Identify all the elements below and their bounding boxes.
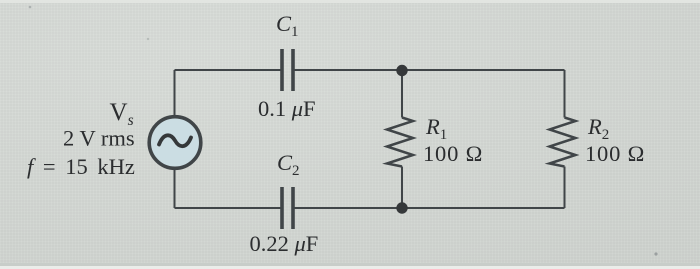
wire left vertical lower [174,168,176,208]
svg-text:R2: R2 [587,114,609,143]
svg-text:100 Ω: 100 Ω [585,141,645,166]
node junction dot bottom [396,202,407,213]
wire R1 branch lower [401,167,403,209]
capacitor C2 [282,187,293,229]
svg-text:0.22 μF: 0.22 μF [250,231,319,256]
svg-text:100 Ω: 100 Ω [423,141,483,166]
svg-text:Vs: Vs [110,99,134,129]
wire R2 branch lower [564,167,566,209]
svg-text:C2: C2 [277,150,300,179]
wire top-left horizontal [175,69,281,71]
svg-text:2 V rms: 2 V rms [63,126,135,151]
node junction dot top [396,65,407,76]
wire bottom-left horizontal [175,207,281,209]
wire bottom-right horizontal [295,207,565,209]
wire R1 branch upper [401,70,403,118]
wire R2 branch upper [564,70,566,118]
source sine symbol [159,135,191,146]
wire top-right horizontal [295,69,565,71]
wire left vertical upper [174,70,176,117]
resistor R1 zigzag [387,118,413,167]
capacitor C1 [282,49,293,91]
svg-text:C1: C1 [276,11,299,40]
source V1 circle [149,117,201,169]
svg-text:0.1 μF: 0.1 μF [258,96,316,121]
resistor R2 zigzag [550,118,576,167]
svg-text:f = 15 kHz: f = 15 kHz [27,154,135,179]
svg-text:R1: R1 [425,114,447,143]
